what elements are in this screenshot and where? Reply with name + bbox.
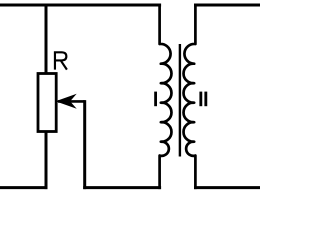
wire: stem from top bus to potentiometer top [45,4,48,74]
wire: bottom bus, left segment [0,186,48,189]
inductor winding II (transformer secondary with leads) [184,4,196,190]
wire: wiper shaft [58,100,85,103]
wire: bottom bus, middle segment (wiper to primary) [83,186,161,189]
resistor R (potentiometer body) [38,74,56,132]
wire: top bus, right segment [194,4,260,7]
wire: bottom bus, right segment [194,186,260,189]
label II (secondary) [199,92,202,107]
label R (potentiometer) [55,52,67,69]
label I (primary) [154,92,157,107]
transformer core [179,44,181,157]
wiper arrowhead [58,95,75,107]
wire: top bus, left segment [0,4,161,7]
inductor winding I (transformer primary with leads) [160,4,172,190]
wire: stem from potentiometer bottom to bottom bus [45,132,48,190]
wire: wiper vertical drop [83,100,86,189]
